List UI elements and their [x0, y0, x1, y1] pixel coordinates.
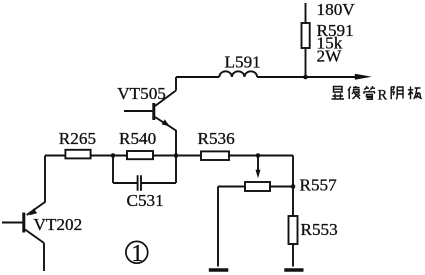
capacitor C531 loop	[113, 156, 176, 191]
svg-text:R265: R265	[59, 129, 96, 148]
ground R553	[284, 268, 303, 271]
char 显	[332, 87, 345, 100]
ground pot left	[209, 268, 229, 271]
char 极	[408, 87, 422, 100]
transistor VT202	[2, 202, 45, 271]
char 像	[348, 86, 360, 99]
wire main middle row	[45, 155, 293, 157]
svg-text:1: 1	[131, 241, 143, 267]
wiper arrow onto R557	[257, 156, 259, 172]
wire below R591	[305, 48, 307, 77]
wire pot left leg	[218, 187, 245, 267]
svg-text:R536: R536	[198, 129, 236, 148]
svg-text:R: R	[378, 87, 388, 103]
svg-text:180V: 180V	[317, 0, 356, 19]
wire pot right to node	[270, 186, 293, 188]
char 管	[364, 86, 376, 99]
svg-text:L591: L591	[225, 52, 261, 71]
wire right drop from main row	[292, 156, 294, 217]
node junction R557/R553	[291, 184, 296, 189]
svg-text:R553: R553	[301, 220, 338, 239]
svg-text:R540: R540	[119, 129, 156, 148]
svg-text:2W: 2W	[317, 47, 343, 66]
figure number circle 1	[126, 241, 148, 267]
potentiometer R557	[245, 182, 270, 191]
resistor R591	[302, 23, 310, 48]
resistor R540	[127, 151, 153, 159]
svg-text:C531: C531	[127, 191, 164, 210]
svg-text:R557: R557	[300, 176, 338, 195]
resistor R553	[289, 216, 298, 244]
inductor L591	[219, 71, 257, 77]
node E emitter junction VT505	[174, 153, 179, 158]
wire below R553	[292, 244, 294, 267]
char 阴	[391, 87, 403, 99]
svg-text:VT505: VT505	[117, 84, 166, 103]
resistor R536	[201, 151, 229, 160]
svg-text:VT202: VT202	[34, 215, 83, 234]
wire left drop to VT202	[44, 156, 46, 203]
node B junction left of R540	[111, 153, 116, 158]
node junction R591/output	[303, 75, 308, 80]
label CRT R cathode (hand-drawn CJK strokes)	[332, 86, 422, 103]
node junction above potentiometer	[256, 153, 261, 158]
arrowhead output to CRT	[355, 74, 372, 80]
resistor R265	[65, 150, 90, 159]
wire collector top horizontal	[176, 76, 357, 78]
transistor VT505	[124, 77, 176, 156]
wire 180V feed vertical	[305, 3, 307, 23]
